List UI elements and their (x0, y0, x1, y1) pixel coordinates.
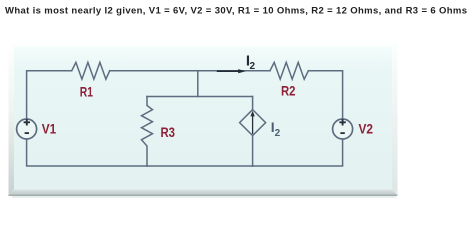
label I2 at diamond (271, 119, 281, 139)
panel interior (14, 47, 392, 190)
wire diamond bottom lead (252, 136, 254, 166)
label I2 at arrow (246, 53, 256, 72)
wire top middle: R1 to R2 through node (110, 70, 270, 72)
wire bottom rail middle (147, 165, 253, 167)
schematic panel frame bottom bevel (9, 190, 398, 196)
svg-text:2: 2 (275, 128, 281, 139)
schematic panel frame top bevel (9, 41, 398, 47)
wire left-bottom: V1 bottom to bottom rail (27, 139, 147, 166)
current arrow I2 on top wire (217, 69, 246, 73)
svg-text:R3: R3 (161, 124, 176, 140)
voltage source V2 (333, 119, 353, 139)
resistor R3 (142, 97, 153, 167)
svg-text:V2: V2 (359, 121, 374, 137)
svg-text:V1: V1 (42, 121, 57, 137)
svg-text:2: 2 (250, 61, 256, 72)
schematic panel frame left bevel (9, 41, 15, 196)
dependent current source I2 (diamond) (240, 110, 266, 136)
svg-text:R2: R2 (281, 83, 296, 99)
wire bottom-right: bottom rail to V2 bottom (253, 139, 343, 166)
wire top-right: R2 to V2 top (308, 71, 342, 120)
voltage source V1 (17, 119, 37, 139)
resistor R1 (72, 62, 110, 79)
wire horizontal connector node to branches (147, 96, 253, 98)
panel drop shadow (12, 196, 396, 198)
wire diamond top lead (252, 97, 254, 110)
panel bottom dark edge line (9, 195, 398, 196)
svg-text:R1: R1 (80, 84, 93, 100)
wire node drop from top rail (197, 71, 199, 97)
resistor R2 (270, 62, 308, 79)
wire top-left: V1 top to R1 (27, 71, 72, 120)
schematic panel frame right bevel (392, 41, 398, 196)
svg-text:What is most nearly I2 given,: What is most nearly I2 given, V1 = 6V, V… (5, 5, 467, 16)
